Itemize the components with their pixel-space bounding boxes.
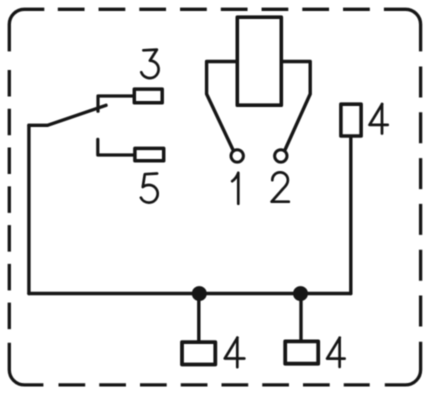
dashed enclosure border: top-right corner xyxy=(384,9,421,51)
coil armature bracket left xyxy=(207,62,238,151)
wire bottom horizontal xyxy=(29,292,351,295)
label 5 xyxy=(141,174,158,203)
terminal 3 lead wire xyxy=(98,96,134,111)
dashed enclosure border: bottom edge xyxy=(59,383,370,386)
terminal 4 bottom-left rectangle xyxy=(182,342,215,364)
dashed enclosure border: left edge xyxy=(8,70,11,329)
dashed enclosure border: top-left corner xyxy=(9,9,44,51)
coil U1 body xyxy=(237,17,281,105)
label 4 bottom-right xyxy=(327,338,345,367)
dashed enclosure border: top edge xyxy=(58,8,370,11)
dashed enclosure border: bottom-right corner xyxy=(385,342,421,385)
terminal 5 rectangle xyxy=(135,148,164,160)
junction node right xyxy=(293,286,308,301)
terminal 4 bottom-right rectangle xyxy=(285,341,318,363)
coil pin 1 contact circle xyxy=(231,150,243,162)
wire left vertical xyxy=(27,125,30,293)
label 3 xyxy=(141,50,158,79)
terminal 5 lead wire xyxy=(98,139,135,155)
wire to bottom-left terminal xyxy=(197,294,200,341)
dashed enclosure border: right edge xyxy=(419,67,422,327)
wire right vertical xyxy=(349,138,352,294)
terminal 3 rectangle xyxy=(134,89,162,103)
label 2 xyxy=(272,172,289,201)
label 4 right xyxy=(370,104,388,134)
wire to bottom-right terminal xyxy=(299,294,302,340)
terminal 4 right rectangle xyxy=(341,104,361,136)
coil armature bracket right xyxy=(281,62,310,151)
label 4 bottom-left xyxy=(225,338,245,368)
dashed enclosure border: bottom-left corner xyxy=(9,343,43,385)
label 1 xyxy=(232,173,238,204)
coil pin 2 contact circle xyxy=(275,150,287,162)
junction node left xyxy=(192,286,207,301)
switch blade SW1 xyxy=(29,105,106,125)
